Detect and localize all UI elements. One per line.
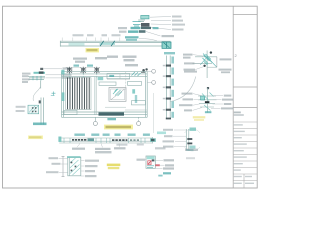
node detail 2 caption (205, 111, 212, 113)
beam annotation teal note rows (125, 36, 139, 38)
bottom beam right labels (163, 129, 175, 148)
beam annotation row 2 (119, 31, 127, 33)
top-right detail dark core (141, 23, 150, 27)
left wall detail top mark (40, 68, 43, 70)
node detail 2 right labels (221, 95, 234, 110)
lower-left anchor box (28, 105, 39, 114)
node detail 2 head box (201, 96, 205, 100)
sheet border frame (3, 6, 258, 188)
left detail cross marks (51, 92, 56, 96)
title block mid line 1 (233, 86, 257, 88)
plan left edge (62, 72, 64, 118)
glass square teal hatch (113, 89, 122, 96)
bottom beam rails (59, 137, 152, 143)
node detail 1 labels (183, 54, 232, 74)
sill bracket hatch (70, 158, 80, 175)
top beam dimension text row (73, 34, 121, 36)
right bay lower lines (105, 106, 126, 108)
top beam right end block (162, 42, 171, 48)
mid rect left (99, 82, 116, 85)
node detail 1 vertical (206, 51, 208, 79)
corner detail lower marks (147, 166, 154, 168)
section circle right (138, 117, 140, 121)
corner detail outer box (146, 156, 155, 168)
node detail 2 left leaders (193, 94, 203, 111)
mullion ladder dim texts (171, 57, 174, 118)
top-right detail leader fan (150, 17, 171, 30)
beam annotation leader to right label (146, 32, 161, 37)
bottom beam fastener run 2 (112, 139, 127, 141)
right bay vertical text (132, 89, 135, 93)
lower-left faint yellow caption (28, 136, 43, 140)
top beam dim extension ticks (62, 38, 120, 42)
bottom beam left end tick (58, 137, 61, 142)
top beam mid infill (100, 43, 116, 45)
stack joint detail top cap (190, 128, 197, 131)
sill bracket left leaders (59, 158, 68, 172)
left wall detail body (28, 76, 45, 79)
lower-left detail left labels (16, 106, 26, 108)
left wall detail top leader (44, 68, 63, 70)
plan right edge (145, 72, 147, 118)
bottom beam fastener run 1 (72, 139, 86, 141)
mid rect right (128, 82, 142, 86)
node detail 1 box bottom (207, 66, 217, 68)
bottom beam stud ticks (64, 138, 145, 143)
mid bay teal text (98, 77, 104, 80)
lower-left mullion vertical pair (40, 98, 42, 125)
bottom beam below labels (72, 147, 126, 150)
title block mid line 2 (233, 107, 257, 109)
plan subtitle teal (107, 118, 116, 120)
node detail 2 right leaders (211, 96, 223, 109)
sill bracket right labels (85, 160, 99, 178)
bottom beam below leaders (77, 144, 120, 148)
left wall detail stem (40, 80, 42, 88)
bottom beam fastener block mid (88, 138, 95, 141)
inner partition lines (94, 77, 96, 115)
node detail 2 top tick (207, 87, 209, 89)
left wall detail cap bar (34, 72, 46, 74)
bottom beam dim texts (74, 134, 149, 136)
sill bracket dim line (62, 157, 64, 177)
plan top dim line (66, 66, 100, 68)
top beam right end block marks (164, 42, 170, 48)
node detail 2 horizontals (198, 96, 217, 107)
sill bracket left labels (46, 157, 61, 173)
lower-left detail caption (33, 123, 47, 126)
mullion ladder caption top (164, 52, 175, 54)
left wall detail left labels (22, 73, 31, 83)
node detail 1 diagonals (200, 54, 217, 68)
node detail 1 horizontals (195, 56, 217, 58)
note above sill bracket (95, 151, 112, 153)
title block row texts (234, 124, 254, 184)
node detail 2 left labels (179, 71, 197, 112)
lower-left anchor box hatch (29, 106, 38, 113)
corner detail right labels (163, 159, 174, 169)
beam annotation row 1 (118, 27, 127, 29)
dim extension line right of plan (153, 93, 155, 133)
plan notes above (73, 56, 138, 67)
top-right detail head box (141, 15, 149, 19)
plan top dim text (74, 65, 80, 67)
node detail 2 vertical (207, 88, 209, 113)
left wall detail leader 2 (46, 74, 62, 76)
mullion ladder rungs (166, 65, 171, 120)
hatched glass square (109, 88, 126, 102)
bottom beam right end block (150, 138, 156, 142)
node detail 1 right dim line (216, 57, 218, 67)
small teal note right of plan bottom (157, 132, 166, 135)
node detail 2 dark core (205, 101, 210, 103)
title block divider line (232, 6, 234, 188)
stack joint detail bottom cluster (190, 146, 196, 149)
left wall detail leader 3 (46, 77, 62, 79)
grid bubble B (152, 81, 156, 85)
top beam break mark 1 (100, 41, 104, 46)
corner detail left label (137, 159, 146, 161)
upper rect with teal label (107, 74, 130, 79)
bottom beam fastener run 3 (130, 139, 139, 141)
top beam break mark 2 (111, 41, 115, 46)
top beam left glass infill (69, 43, 85, 46)
node detail 2 yellow caption (193, 116, 206, 118)
corner detail red note (155, 164, 160, 166)
top beam horizontal section (60, 41, 170, 47)
top-right detail labels (172, 16, 185, 31)
bottom beam right leaders (173, 130, 187, 147)
upper-right teal slashes (132, 72, 141, 76)
plan title dark text (99, 112, 125, 115)
right bay rect (132, 101, 146, 105)
title block project text (234, 112, 241, 114)
title block row lines (233, 122, 257, 188)
plan bottom chords (62, 112, 148, 117)
plan yellow caption (104, 125, 133, 130)
left edge vertical dim text upper (61, 70, 64, 75)
corner detail red insulation (148, 161, 151, 165)
stack joint detail rails (185, 129, 187, 151)
mullion ladder left ticks (163, 65, 165, 111)
grid bubble leader 2 (147, 81, 151, 83)
lower-left anchor bolts (32, 107, 37, 112)
sill bracket body (68, 157, 81, 176)
mullion ladder rails (166, 56, 168, 120)
lower-left mullion dark head (39, 100, 41, 103)
plan top-right dark anchor pair (141, 68, 148, 73)
grid bubble A (152, 69, 156, 73)
corner detail top fill (147, 156, 155, 159)
left edge vertical dim text lower (62, 92, 65, 101)
node detail 1 bolts (210, 51, 212, 53)
corner detail right leaders (156, 160, 165, 168)
top-right detail left arm (133, 22, 141, 27)
anchor symbol drops (69, 74, 96, 79)
anchor symbol 1 (67, 67, 72, 74)
beam annotation curve leader (139, 39, 157, 41)
sill bracket right leaders (81, 161, 85, 176)
plan outer top chords (62, 72, 148, 77)
anchor symbol 2 (81, 67, 86, 74)
louver slats (68, 77, 90, 109)
title block top cell line (233, 14, 257, 16)
yellow label under top beam (86, 48, 100, 52)
node detail 1 hatch cluster (203, 54, 212, 65)
stack joint detail dark blocks (187, 138, 192, 140)
yellow caption right of sill bracket (107, 164, 121, 167)
left detail S-curve leader (33, 87, 40, 102)
top-right detail mid marks (138, 20, 145, 22)
bay divider dashed (125, 72, 127, 90)
anchor symbol 3 (94, 67, 99, 74)
detail callout arc (171, 77, 196, 102)
node detail 1 leader lines (193, 55, 204, 70)
corner detail captions below (163, 172, 171, 174)
glass square diagonal (111, 89, 125, 100)
sill bracket bolts (71, 162, 77, 172)
bottom-left small rect (64, 110, 77, 114)
corner detail note above (155, 147, 166, 149)
section circle left (94, 117, 96, 121)
louver frame (66, 78, 91, 110)
sill bracket top cap (67, 156, 81, 158)
corner detail dark marks (152, 159, 155, 161)
node detail 2 hatch (202, 93, 214, 111)
stack joint detail callout circle (185, 129, 201, 151)
bottom beam under-labels right half (116, 144, 127, 146)
grid bubble leader 1 (147, 70, 151, 72)
